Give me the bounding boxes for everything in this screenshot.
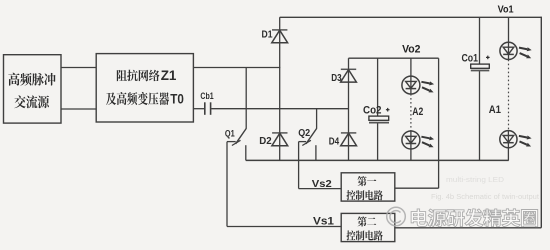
svg-text:T0: T0 xyxy=(170,92,184,107)
svg-text:D2: D2 xyxy=(259,135,272,147)
svg-text:Vo1: Vo1 xyxy=(498,4,514,15)
svg-text:D1: D1 xyxy=(262,28,273,40)
svg-text:A1: A1 xyxy=(489,104,501,116)
svg-text:Vs1: Vs1 xyxy=(313,216,334,228)
svg-text:A2: A2 xyxy=(412,106,423,118)
svg-text:D4: D4 xyxy=(329,135,340,147)
svg-text:Fig. 4b Schematic of twin-outp: Fig. 4b Schematic of twin-output xyxy=(431,192,540,201)
svg-text:Co1: Co1 xyxy=(462,53,479,65)
svg-text:Q1: Q1 xyxy=(225,128,235,139)
svg-text:multi-string LED: multi-string LED xyxy=(446,175,504,184)
svg-text:Co2: Co2 xyxy=(363,104,382,116)
svg-text:Vs2: Vs2 xyxy=(312,179,332,190)
svg-text:Z1: Z1 xyxy=(161,68,177,83)
svg-text:Vo2: Vo2 xyxy=(402,44,420,56)
svg-text:D3: D3 xyxy=(331,72,342,84)
svg-text:Q2: Q2 xyxy=(298,127,310,139)
svg-text:Cb1: Cb1 xyxy=(200,91,213,101)
